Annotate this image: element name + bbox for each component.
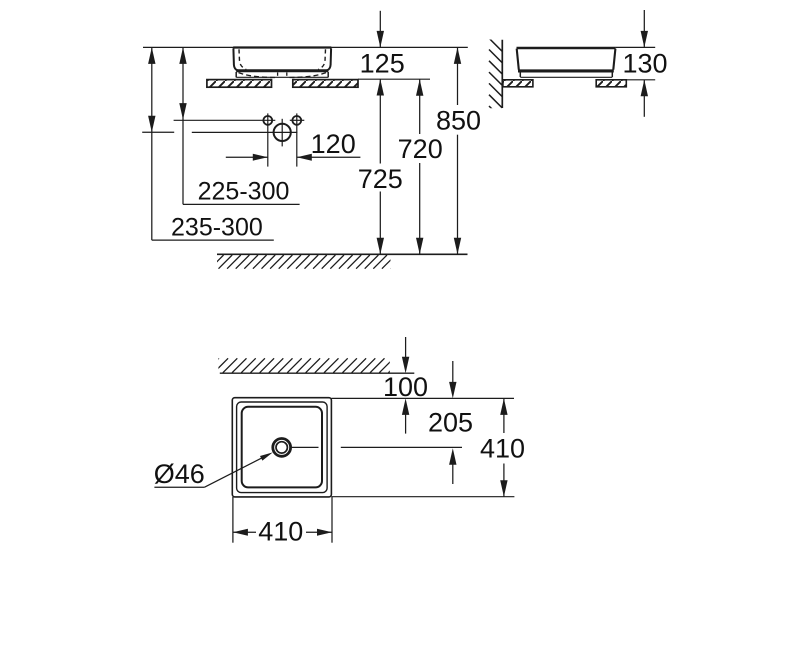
dim 120 (hole spacing) <box>226 129 361 161</box>
foot hidden drain contours (dashed) <box>239 72 327 78</box>
counter surface extension line to 725/720 dims <box>358 78 430 80</box>
svg-text:235-300: 235-300 <box>171 214 263 242</box>
dim 100 (wall to basin) <box>383 337 428 434</box>
extension line basin bottom edge (plan) <box>331 496 514 498</box>
svg-text:720: 720 <box>398 134 443 164</box>
dim 410 right (plan depth) <box>480 398 525 496</box>
dim 720 (floor to counter underside) <box>398 79 443 254</box>
svg-text:120: 120 <box>311 129 356 159</box>
dim 850 (floor to basin rim) <box>436 47 481 254</box>
svg-text:225-300: 225-300 <box>198 178 290 206</box>
dim 205 (basin edge to drain center) <box>428 361 473 484</box>
extension line shelf level (130 bottom) <box>626 79 655 81</box>
basin bowl hidden contour right (dashed) <box>318 49 325 69</box>
svg-text:130: 130 <box>622 49 667 79</box>
svg-text:410: 410 <box>480 434 525 464</box>
drain centerline <box>292 446 319 448</box>
svg-text:410: 410 <box>258 517 303 547</box>
mixer hole large circle <box>274 124 291 141</box>
svg-text:125: 125 <box>360 49 405 79</box>
drain outer circle <box>273 439 291 457</box>
basin bowl hidden contour left (dashed) <box>239 49 246 69</box>
svg-text:100: 100 <box>383 372 428 402</box>
dim 125 (basin height above counter) <box>360 11 405 79</box>
basin front outline <box>233 48 331 71</box>
countertop hatched bar right (front view) <box>293 80 358 88</box>
basin side outline <box>517 48 616 71</box>
svg-text:Ø46: Ø46 <box>154 459 205 489</box>
hole vertical centerlines / extensions <box>267 113 269 166</box>
shelf hatched bar left (side view) <box>503 80 533 87</box>
dim 410 bottom (plan width) <box>233 497 332 547</box>
basin rim middle line <box>237 402 328 493</box>
countertop hatched bar left (front view) <box>207 80 272 88</box>
basin foot front <box>236 72 328 78</box>
faucet hole right circle <box>292 116 301 125</box>
floor hatch <box>201 255 412 269</box>
centerline through small holes <box>174 119 276 121</box>
svg-text:725: 725 <box>358 164 403 194</box>
basin rim inner line <box>242 407 322 488</box>
extension line rim level (130 top) <box>616 46 656 48</box>
dim 235-300 (rim to mixer supply) <box>142 47 274 241</box>
dim 725 (floor to counter top) <box>358 79 403 254</box>
basin foot side <box>520 72 612 77</box>
wall line (side view) <box>501 40 503 108</box>
dim 225-300 (rim to faucet holes) <box>179 47 299 205</box>
svg-text:205: 205 <box>428 408 473 438</box>
wall hatch (plan) <box>205 358 403 372</box>
reference line basin-rim level (850 top) <box>143 46 468 48</box>
svg-text:850: 850 <box>436 106 481 136</box>
shelf hatched bar right (side view) <box>596 80 626 87</box>
label O46 drain <box>154 452 273 489</box>
wall hatch (side view) <box>489 38 502 119</box>
floor line (front view) <box>217 253 468 255</box>
basin outer square (plan) <box>232 398 331 497</box>
wall face line (plan) <box>220 372 414 374</box>
faucet hole left circle <box>263 116 272 125</box>
extension line basin top edge (plan) <box>331 397 514 399</box>
centerline through large hole <box>192 131 297 133</box>
drain inner circle <box>276 442 287 453</box>
dim 130 (basin height side view) <box>622 10 667 117</box>
